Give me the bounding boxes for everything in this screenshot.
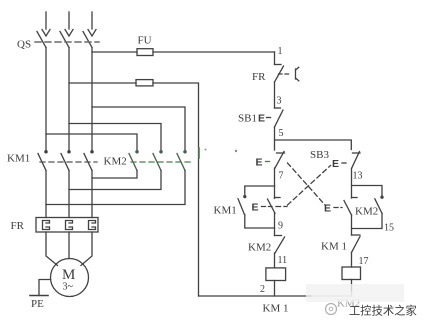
- svg-text:15: 15: [384, 223, 394, 234]
- switch QS pole 3 blade: [83, 32, 92, 48]
- coil KM2: [342, 267, 361, 280]
- motor M 3~: [51, 259, 89, 297]
- contactor KM1 NC interlock contact (right branch): [352, 235, 361, 253]
- wire to fuse 2 (from phase B): [69, 82, 136, 84]
- KM1 auxiliary self-hold contact branch: [238, 186, 275, 228]
- contactor KM2 main contact 3: [177, 151, 186, 171]
- pushbutton SB2 NC contact (right branch): [344, 198, 357, 216]
- phase L2 incoming wire with arrow: [65, 12, 73, 36]
- wire to fuse FU top (from phase C): [92, 51, 137, 53]
- wire FR to motor terminal 2: [68, 232, 70, 259]
- KM1 linkage dashed line: [40, 161, 97, 163]
- SB2-NC actuator dash: [334, 207, 342, 209]
- PE wire from motor frame: [39, 280, 51, 296]
- control ladder: wire node1 down to FR contact: [274, 52, 276, 65]
- wire node5 branch to SB3: [275, 140, 352, 150]
- svg-text:KM 1: KM 1: [321, 241, 347, 253]
- svg-text:FU: FU: [138, 35, 152, 47]
- wire fuse 1 to control ladder node 1: [153, 51, 275, 53]
- svg-text:KM2: KM2: [248, 242, 271, 254]
- FR heater element 3: [89, 221, 96, 230]
- contactor KM2 main contact 2: [153, 151, 162, 171]
- wire FR to motor terminal 3: [81, 232, 92, 266]
- SB2 mechanical link dashed diagonal to right branch: [288, 163, 326, 206]
- pushbutton SB1 (stop, NC): [275, 108, 284, 127]
- FR NC contact (control): [275, 65, 284, 83]
- wire coil KM1 to node 2 bottom line: [274, 281, 276, 297]
- bottom return line: [199, 295, 313, 297]
- switch QS pole 1 blade: [37, 32, 46, 48]
- svg-text:KM2: KM2: [355, 206, 378, 218]
- phase L3 incoming wire with arrow: [88, 12, 96, 36]
- wire KM1 contact 1 down to FR: [45, 171, 47, 218]
- watermark smudge: [306, 284, 404, 302]
- svg-text:2: 2: [260, 284, 265, 295]
- wire node 11: [274, 253, 276, 268]
- wire node 9: [274, 213, 276, 235]
- wire KM1 contact 2 down to FR: [68, 171, 70, 218]
- fuse FU 1 body: [137, 49, 153, 56]
- svg-text:E: E: [258, 113, 265, 125]
- svg-text:工控技术之家: 工控技术之家: [349, 304, 417, 318]
- pushbutton SB3 (start rev, NO) right branch: [352, 152, 361, 169]
- FR heater element 2: [66, 221, 73, 230]
- wire node 17: [351, 253, 353, 268]
- SB2 actuator dash: [266, 161, 273, 163]
- wire phase B vertical QS to KM1: [68, 48, 70, 152]
- KM2 linkage dashed line: [131, 161, 190, 163]
- svg-text:FR: FR: [11, 220, 25, 232]
- merge wire KM2 contact3 bottom to phase A: [46, 171, 185, 205]
- svg-text:E: E: [252, 202, 259, 214]
- contactor KM1 main contact 3: [84, 151, 93, 171]
- pushbutton SB2 (start fwd, NO): [275, 152, 285, 169]
- FR trip actuator dashed link: [279, 73, 290, 75]
- green watermark speck 1: [235, 150, 237, 152]
- contactor KM2 main contact 1: [129, 151, 138, 171]
- bottom return line (faded under watermark): [312, 295, 352, 297]
- merge wire KM2 contact1 bottom to phase C: [92, 171, 137, 179]
- FR heater element 1: [43, 221, 50, 230]
- fuse FU 2 body: [136, 80, 153, 86]
- wire node 5: [274, 127, 276, 150]
- coil KM1: [266, 268, 286, 281]
- svg-text:7: 7: [279, 171, 284, 182]
- contactor KM1 main contact 1: [38, 151, 47, 171]
- green watermark tick on return line: [198, 148, 200, 158]
- green watermark speck 2: [205, 149, 207, 151]
- svg-text:1: 1: [278, 46, 283, 57]
- switch QS pole 2 blade: [60, 32, 69, 48]
- SB3-NC actuator dashes: [262, 206, 273, 208]
- wire fuse 2 to control return line: [153, 83, 199, 296]
- svg-text:SB3: SB3: [310, 149, 329, 161]
- wire phase C vertical QS to KM1: [91, 48, 93, 152]
- QS mechanical linkage dashed line: [35, 41, 99, 43]
- svg-text:SB1: SB1: [238, 113, 257, 125]
- merge wire KM2 contact2 bottom to phase B: [69, 171, 161, 190]
- phase L1 incoming wire with arrow: [42, 12, 50, 36]
- crossover wire phase A to KM2 left contact: [46, 134, 137, 151]
- wire node 15: [351, 215, 353, 235]
- svg-text:13: 13: [353, 171, 363, 182]
- thermal relay FR heater box: [36, 218, 98, 233]
- svg-text:KM 1: KM 1: [263, 303, 289, 315]
- svg-text:E: E: [332, 158, 339, 170]
- svg-text:3~: 3~: [63, 282, 74, 293]
- wire FR to motor terminal 1: [46, 232, 58, 266]
- svg-text:QS: QS: [17, 39, 31, 51]
- contactor KM2 NC interlock contact (left branch): [275, 236, 285, 254]
- crossover wire phase B to KM2 middle contact: [69, 124, 161, 151]
- crossover wire phase C to KM2 right contact: [92, 107, 185, 151]
- svg-text:KM1: KM1: [7, 153, 30, 165]
- svg-text:E: E: [256, 157, 263, 169]
- svg-text:3: 3: [277, 96, 282, 107]
- SB3 mechanical link dashed diagonal: [276, 166, 331, 207]
- wire phase A vertical QS to KM1: [45, 48, 47, 152]
- wire node 7: [274, 168, 276, 198]
- svg-text:FR: FR: [252, 71, 266, 83]
- svg-text:KM2: KM2: [104, 156, 127, 168]
- wire node 13: [351, 169, 353, 199]
- wire coil KM2 to bottom line: [351, 280, 353, 293]
- svg-text:E: E: [324, 203, 331, 215]
- svg-text:5: 5: [279, 128, 284, 139]
- svg-text:PE: PE: [31, 298, 44, 310]
- pushbutton SB3 NC contact (left branch): [268, 198, 281, 214]
- SB1 actuator dash: [267, 117, 274, 119]
- PE ground bar: [30, 295, 48, 297]
- contactor KM1 main contact 2: [61, 151, 70, 171]
- svg-text:17: 17: [359, 256, 369, 267]
- SB3 actuator dash to blade: [342, 162, 349, 164]
- FR trip actuator symbol: [296, 67, 299, 81]
- watermark logo circle: [326, 304, 337, 315]
- wire KM1 contact 3 down to FR: [91, 171, 93, 218]
- svg-text:KM1: KM1: [214, 205, 237, 217]
- svg-text:11: 11: [278, 255, 288, 266]
- svg-text:9: 9: [278, 221, 283, 232]
- KM2 auxiliary self-hold contact branch: [352, 186, 384, 229]
- wire node 3: [274, 82, 276, 108]
